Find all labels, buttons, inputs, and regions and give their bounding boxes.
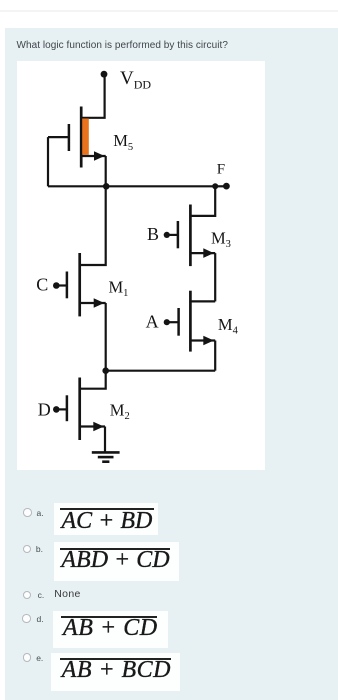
M3 label: [211, 229, 231, 251]
wire VDD to M5 drain: [81, 74, 104, 118]
svg-text:M2: M2: [110, 400, 130, 422]
node F horizontal wire: [48, 185, 215, 187]
M5 label: [113, 131, 133, 153]
M2 gate bar: [66, 395, 69, 421]
M3 source wire with arrow: [190, 248, 215, 301]
C label: [36, 274, 48, 294]
transistor M3 channel: [189, 205, 192, 267]
option b radio: [23, 545, 32, 554]
M4 label: [218, 315, 239, 337]
transistor M1 channel: [78, 253, 81, 316]
svg-text:D: D: [38, 399, 51, 419]
svg-text:M1: M1: [109, 278, 129, 300]
VDD label: [120, 68, 151, 92]
transistor M2 channel: [78, 378, 81, 441]
junction dot right branch: [212, 183, 218, 189]
F label: [217, 162, 225, 178]
transistor M5 channel: [80, 107, 83, 168]
option c text None: [54, 589, 80, 600]
svg-text:M3: M3: [211, 229, 231, 251]
option d radio: [22, 614, 31, 623]
transistor M4 channel: [189, 291, 192, 352]
M2 source wire with arrow: [80, 422, 105, 453]
option b formula box: [54, 542, 179, 581]
svg-text:C: C: [36, 274, 48, 294]
option a letter: [37, 508, 44, 518]
M1 gate lead: [56, 284, 67, 286]
M5 gate lead: [48, 136, 69, 138]
M4 drain wire: [190, 300, 215, 302]
option a formula box: [54, 503, 158, 535]
M5 orange channel highlight: [82, 119, 89, 155]
top hairline: [0, 10, 338, 12]
output stub wire: [215, 185, 223, 187]
M4 gate lead: [167, 321, 179, 323]
input C terminal dot: [53, 282, 60, 289]
svg-text:F: F: [217, 162, 225, 178]
M3 gate lead: [167, 234, 178, 236]
M2 gate lead: [56, 408, 67, 410]
M1 label: [109, 278, 129, 300]
M5 gate feedback wire: [47, 137, 49, 186]
option e letter: [36, 653, 43, 663]
bottom node horizontal wire: [106, 370, 216, 372]
A label: [146, 312, 159, 332]
wire node F to M3 drain: [190, 186, 215, 216]
M4 gate bar: [177, 308, 180, 336]
input B terminal dot: [164, 232, 170, 238]
svg-text:M5: M5: [113, 131, 133, 153]
M5 source wire with arrow: [81, 151, 106, 186]
M4 source wire with arrow: [190, 336, 215, 371]
input D terminal dot: [53, 406, 60, 413]
M3 gate bar: [177, 221, 180, 248]
svg-text:M4: M4: [218, 315, 239, 337]
wire node F to M1 drain: [80, 186, 106, 265]
option b letter: [36, 544, 43, 554]
svg-text:A: A: [146, 312, 159, 332]
input A terminal dot: [164, 319, 170, 325]
M1 gate bar: [66, 272, 69, 299]
option e radio: [23, 653, 32, 662]
junction dot bottom node: [102, 367, 109, 374]
wire bottom node to M2 drain: [80, 371, 106, 389]
ground symbol: [92, 452, 120, 461]
option c letter: [38, 590, 45, 600]
option d letter: [37, 614, 44, 624]
M2 label: [110, 400, 130, 422]
junction dot left branch: [103, 183, 110, 190]
option a radio: [23, 508, 32, 517]
circuit schematic svg: [17, 60, 265, 470]
D label: [38, 399, 51, 419]
output terminal dot: [223, 183, 230, 190]
question text: [17, 40, 228, 51]
option d formula box: [53, 611, 167, 648]
svg-text:VDD: VDD: [120, 68, 151, 92]
B label: [147, 224, 159, 244]
option e formula box: [51, 653, 180, 691]
svg-text:B: B: [147, 224, 159, 244]
M5 gate bar: [68, 124, 71, 151]
circuit white box: [17, 61, 265, 471]
option c radio: [23, 591, 32, 600]
VDD supply dot: [101, 71, 108, 78]
M1 source wire with arrow: [80, 298, 106, 371]
